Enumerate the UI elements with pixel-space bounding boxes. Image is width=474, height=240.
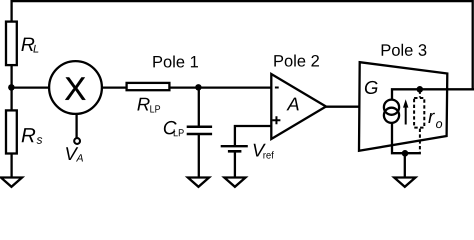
ground (below V_ref) — [224, 178, 245, 187]
label V_A subscript — [76, 154, 83, 161]
label V_ref — [254, 144, 266, 157]
wire R_L bottom to R_s top — [10, 65, 12, 111]
node pole-1 junction — [195, 84, 201, 90]
label r_o subscript — [436, 121, 442, 128]
label R_s subscript — [37, 137, 43, 144]
label C_LP — [164, 121, 177, 134]
current source I1 circle 1 — [384, 100, 399, 115]
capacitor C_LP — [187, 125, 212, 128]
node pole-3 output — [417, 86, 424, 93]
current source arrow — [405, 105, 407, 125]
label V_ref subscript — [263, 151, 273, 158]
label Pole 2 — [274, 55, 319, 67]
terminal V_A open circle — [74, 138, 80, 144]
wire R_s bottom to ground — [10, 154, 12, 178]
resistor R_s — [6, 110, 17, 153]
wire top rail from R_L top to right edge and down — [12, 1, 473, 89]
label Pole 1 — [153, 55, 198, 67]
node pole-3 bottom — [402, 150, 409, 157]
label R_LP subscript — [150, 105, 160, 112]
node junction R_L/R_s — [8, 84, 15, 91]
resistor R_L — [6, 22, 17, 66]
label r_o — [428, 113, 435, 123]
wire battery to ground — [234, 152, 236, 177]
label Pole 3 — [382, 44, 427, 56]
wire current source bottom to bottom rail — [392, 123, 421, 154]
ground (pole 3) — [394, 178, 415, 187]
mixer X1 circle — [49, 61, 102, 114]
label R_LP — [137, 98, 149, 111]
dashed lead node to r_o box — [419, 91, 421, 98]
battery V_ref bottom plate — [228, 150, 242, 153]
label V_A — [66, 147, 78, 160]
label R_L — [21, 38, 34, 51]
label A (op-amp gain) — [286, 98, 298, 111]
ground (below R_s) — [1, 178, 22, 187]
wire mixer bottom terminal — [75, 114, 77, 138]
wire pole-3 internal top rail / output — [392, 89, 474, 100]
wire mixer to R_LP — [102, 86, 127, 88]
wire junction down to C_LP — [198, 88, 200, 126]
label R_L subscript — [33, 45, 38, 53]
label R_s — [22, 128, 36, 142]
wire plus input to V_ref — [235, 126, 271, 145]
resistor R_LP — [127, 83, 170, 90]
wire R_LP to op-amp minus input — [169, 86, 271, 88]
wire C_LP to ground — [198, 135, 200, 178]
battery V_ref top plate — [221, 145, 248, 147]
label X (mixer) — [65, 77, 85, 99]
ground (below C_LP) — [188, 178, 209, 187]
resistor r_o dashed box — [414, 98, 424, 128]
current source I1 circle 2 — [384, 108, 399, 123]
label G — [365, 81, 378, 94]
wire op-amp output to pole-3 block — [325, 106, 360, 108]
op-amp U1 triangle — [271, 74, 326, 139]
wire bottom node to ground — [404, 153, 406, 177]
wire junction to mixer — [11, 86, 49, 88]
plus sign — [273, 116, 281, 124]
label C_LP subscript — [174, 129, 184, 136]
minus sign — [275, 87, 279, 89]
dashed lead r_o box to bottom rail — [419, 129, 421, 153]
pole-3 trapezoid block G — [359, 62, 447, 151]
